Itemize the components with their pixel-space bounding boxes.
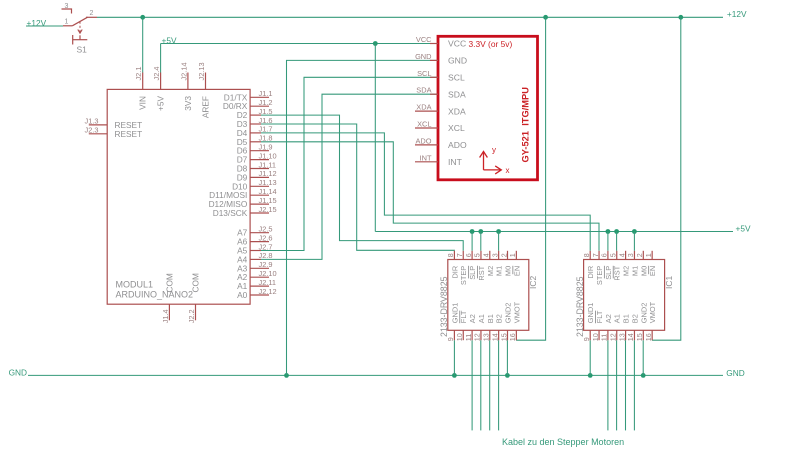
IC1 pin 10 (FLT) xyxy=(591,310,604,341)
IC2 pin 12 (A1) xyxy=(473,314,486,341)
IC1 pin 3 (M1) xyxy=(626,251,639,276)
svg-text:M1: M1 xyxy=(495,266,504,276)
MODUL1 reference label xyxy=(116,280,154,290)
wire D2 (MODUL1 D2 to IC2 STEP) xyxy=(261,115,463,251)
GY-521 axis icon xyxy=(480,146,510,175)
MODUL1 pin J1.12 (D9) xyxy=(237,169,277,182)
svg-text:J1.13: J1.13 xyxy=(259,178,277,187)
node GND (right rail label) xyxy=(726,368,744,378)
svg-text:RST: RST xyxy=(477,265,486,280)
GY-521 pin INT xyxy=(415,153,463,167)
svg-text:2: 2 xyxy=(90,10,94,17)
GY-521 name label xyxy=(521,87,531,163)
MODUL1 pin J2.2 (COM) xyxy=(187,273,201,323)
svg-text:4: 4 xyxy=(617,253,626,257)
svg-text:14: 14 xyxy=(490,333,499,341)
junction +5V tap at x=472.1 xyxy=(470,229,475,234)
svg-text:GND: GND xyxy=(9,367,27,377)
junction +12V / VIN drop xyxy=(140,15,145,20)
IC1 pin 6 (SLP) xyxy=(600,251,613,280)
IC2 pin 5 (RST) xyxy=(473,251,486,281)
wire D3 (MODUL1 D3 to IC2 DIR) xyxy=(261,124,454,251)
wire +5V tap to driver pin at x=607.9 xyxy=(607,232,609,251)
svg-text:16: 16 xyxy=(644,333,653,341)
svg-text:STEP: STEP xyxy=(459,266,468,285)
MODUL1 pin J2.4 (+5V) xyxy=(152,67,166,111)
svg-text:SCL: SCL xyxy=(417,69,431,78)
S1 reference label xyxy=(77,45,88,55)
svg-text:IC2: IC2 xyxy=(528,276,538,290)
svg-text:J1.2: J1.2 xyxy=(259,98,273,107)
junction GND / IC1 GND1 xyxy=(588,373,593,378)
GY-521 value label 3.3V (or 5v) xyxy=(469,39,513,49)
wire stepper motor lead at x=634.4 xyxy=(633,340,635,430)
wire +5V tap to driver pin at x=472.1 xyxy=(471,232,473,251)
svg-text:XDA: XDA xyxy=(448,106,466,116)
svg-text:SLP: SLP xyxy=(468,266,477,280)
IC2 pin 6 (SLP) xyxy=(464,251,477,280)
IC2 pin 8 (DIR) xyxy=(446,251,459,279)
svg-text:M2: M2 xyxy=(486,266,495,276)
IC1 reference label xyxy=(664,276,674,290)
wire SDA (MODUL1 A4 to GY-521 SDA) xyxy=(261,94,437,259)
svg-text:x: x xyxy=(506,166,510,175)
IC2 pin 3 (M1) xyxy=(490,251,503,276)
wire GY-521 GND to GND rail xyxy=(287,60,438,375)
svg-text:2: 2 xyxy=(499,253,508,257)
svg-text:SLP: SLP xyxy=(604,266,613,280)
svg-text:3: 3 xyxy=(626,253,635,257)
svg-text:3.3V (or 5v): 3.3V (or 5v) xyxy=(469,39,513,49)
svg-text:J1.1: J1.1 xyxy=(259,89,273,98)
MODUL1 pin J2.7 (A5) xyxy=(237,242,272,255)
IC2 pin 14 (B2) xyxy=(490,314,503,341)
svg-text:VCC: VCC xyxy=(448,39,466,49)
MODUL1 pin J2.5 (A7) xyxy=(237,225,272,238)
svg-text:M2: M2 xyxy=(622,266,631,276)
IC1 pin 4 (M2) xyxy=(617,251,630,276)
svg-text:DIR: DIR xyxy=(586,266,595,279)
junction +12V / IC2 VMOT drop xyxy=(543,15,548,20)
svg-text:A1: A1 xyxy=(477,314,486,323)
wire stepper motor lead at x=489.7 xyxy=(489,340,491,430)
module MODUL1 ARDUINO_NANO2 box xyxy=(107,89,250,304)
wire +12V feed to switch pin 1 xyxy=(26,25,63,27)
svg-text:GND2: GND2 xyxy=(639,303,648,324)
svg-text:GND: GND xyxy=(726,368,744,378)
GY-521 pin GND xyxy=(415,52,467,66)
svg-text:INT: INT xyxy=(448,157,463,167)
junction +5V tap at x=498.6 xyxy=(496,229,501,234)
svg-text:J1.8: J1.8 xyxy=(259,134,273,143)
IC1 pin 15 (GND2) xyxy=(635,303,648,342)
junction GND / IC1 GND2 xyxy=(641,373,646,378)
junction GND / IC2 GND2 xyxy=(505,373,510,378)
MODUL1 pin J1.13 (D10) xyxy=(232,178,277,191)
svg-text:5: 5 xyxy=(609,253,618,257)
svg-text:J1.5: J1.5 xyxy=(259,107,273,116)
junction +5V drop xyxy=(373,41,378,46)
node +12V (left supply label) xyxy=(27,18,47,28)
MODUL1 pin J2.3 (RESET) xyxy=(85,126,143,139)
svg-text:GND1: GND1 xyxy=(586,303,595,324)
wire +12V to MODUL1 VIN xyxy=(142,17,144,72)
svg-text:COM: COM xyxy=(191,273,201,292)
wire +12V to IC1 VMOT xyxy=(652,17,681,340)
IC2 pin 1 (EN) xyxy=(508,251,521,276)
svg-text:J1.11: J1.11 xyxy=(259,160,277,169)
svg-text:1: 1 xyxy=(644,253,653,257)
svg-text:B1: B1 xyxy=(486,314,495,323)
wire D4 (MODUL1 D4 to IC1 DIR) xyxy=(261,133,590,251)
MODUL1 value label xyxy=(116,290,194,300)
svg-text:VCC: VCC xyxy=(416,35,432,44)
svg-text:J2.2: J2.2 xyxy=(187,309,196,323)
svg-text:2: 2 xyxy=(635,253,644,257)
svg-text:12: 12 xyxy=(609,333,618,341)
MODUL1 pin J2.11 (A1) xyxy=(237,278,276,291)
svg-text:1: 1 xyxy=(508,253,517,257)
node +12V (right rail label) xyxy=(727,9,747,19)
node +5V (right rail label) xyxy=(736,223,751,233)
svg-text:8: 8 xyxy=(446,253,455,257)
svg-text:4: 4 xyxy=(482,253,491,257)
svg-text:ADO: ADO xyxy=(448,140,467,150)
svg-text:J2.9: J2.9 xyxy=(259,260,273,269)
MODUL1 pin J2.10 (A2) xyxy=(237,269,276,282)
IC2 pin 10 (FLT) xyxy=(455,310,468,341)
svg-text:J2.6: J2.6 xyxy=(259,233,273,242)
S1 pin number 3 xyxy=(65,3,69,10)
node GND (left rail label) xyxy=(9,367,27,377)
IC1 pin 11 (A2) xyxy=(600,314,613,341)
junction +5V tap at x=616.6 xyxy=(614,229,619,234)
svg-text:SCL: SCL xyxy=(448,73,465,83)
svg-text:13: 13 xyxy=(482,333,491,341)
IC1 pin 8 (DIR) xyxy=(582,251,595,279)
IC1 pin 13 (B1) xyxy=(617,314,630,341)
svg-text:7: 7 xyxy=(591,253,600,257)
MODUL1 pin J1.15 (D12/MISO) xyxy=(209,196,277,209)
wire +5V tap to driver pin at x=498.6 xyxy=(498,232,500,251)
svg-text:3V3: 3V3 xyxy=(183,96,193,111)
svg-text:J2.3: J2.3 xyxy=(85,126,99,135)
svg-text:8: 8 xyxy=(582,253,591,257)
svg-text:16: 16 xyxy=(508,333,517,341)
svg-text:2133-DRV8825: 2133-DRV8825 xyxy=(439,276,449,337)
svg-text:J2.15: J2.15 xyxy=(259,205,277,214)
svg-text:+5V: +5V xyxy=(156,96,166,111)
svg-text:XCL: XCL xyxy=(448,123,465,133)
MODUL1 pin J1.4 (COM) xyxy=(161,273,175,323)
svg-text:3: 3 xyxy=(65,3,69,10)
svg-text:J1.14: J1.14 xyxy=(259,187,277,196)
IC1 device label 2133-DRV8825 xyxy=(575,276,585,337)
MODUL1 pin J1.2 (D0/RX) xyxy=(223,98,273,111)
svg-text:J1.3: J1.3 xyxy=(85,117,99,126)
svg-text:J2.14: J2.14 xyxy=(179,62,188,80)
svg-text:VMOT: VMOT xyxy=(512,301,521,323)
junction +5V tap at x=480.8 xyxy=(478,229,483,234)
wire stepper motor lead at x=472.1 xyxy=(471,340,473,430)
node +5V (label near MODUL1) xyxy=(162,35,177,45)
svg-text:VIN: VIN xyxy=(138,96,148,110)
IC2 pin 4 (M2) xyxy=(482,251,495,276)
svg-text:MODUL1: MODUL1 xyxy=(116,280,154,290)
svg-text:1: 1 xyxy=(65,18,69,25)
svg-text:Kabel zu den Stepper Motoren: Kabel zu den Stepper Motoren xyxy=(502,437,624,447)
svg-text:J2.11: J2.11 xyxy=(259,278,277,287)
svg-text:2133-DRV8825: 2133-DRV8825 xyxy=(575,276,585,337)
svg-text:9: 9 xyxy=(446,337,455,341)
svg-text:ARDUINO_NANO2: ARDUINO_NANO2 xyxy=(116,290,194,300)
wire stepper motor lead at x=607.9 xyxy=(607,340,609,430)
IC2 pin 7 (STEP) xyxy=(455,251,468,285)
svg-text:A0: A0 xyxy=(237,290,248,300)
MODUL1 pin J1.6 (D3) xyxy=(237,116,273,129)
switch S1 xyxy=(62,9,98,45)
svg-text:6: 6 xyxy=(464,253,473,257)
GY-521 pin VCC xyxy=(416,35,466,49)
svg-text:SDA: SDA xyxy=(416,86,431,95)
wire stepper motor lead at x=625.5 xyxy=(625,340,627,430)
svg-text:RST: RST xyxy=(613,265,622,280)
IC2 pin 13 (B1) xyxy=(482,314,495,341)
svg-text:5: 5 xyxy=(473,253,482,257)
MODUL1 pin J1.10 (D7) xyxy=(237,151,277,164)
svg-text:GND: GND xyxy=(448,56,467,66)
IC1 pin 7 (STEP) xyxy=(591,251,604,285)
MODUL1 pin J1.1 (D1/TX) xyxy=(224,89,273,102)
wire SCL (MODUL1 A5 to GY-521 SCL) xyxy=(261,77,437,250)
MODUL1 pin J2.6 (A6) xyxy=(237,233,272,246)
wire +5V rail (middle) xyxy=(375,231,733,233)
svg-text:XCL: XCL xyxy=(417,120,431,129)
IC1 pin 16 (VMOT) xyxy=(644,301,657,341)
wire +5V tap to driver pin at x=634.4 xyxy=(633,232,635,251)
svg-text:A2: A2 xyxy=(604,314,613,323)
svg-text:EN: EN xyxy=(648,266,657,276)
svg-text:J1.10: J1.10 xyxy=(259,151,277,160)
MODUL1 pin J2.9 (A3) xyxy=(237,260,272,273)
svg-text:M1: M1 xyxy=(630,266,639,276)
wire IC2 GND2 to GND rail xyxy=(506,340,508,375)
svg-text:J2.12: J2.12 xyxy=(259,287,277,296)
wire IC2 GND1 to GND rail xyxy=(453,340,455,375)
svg-text:FLT: FLT xyxy=(595,310,604,323)
junction +5V tap at x=634.4 xyxy=(632,229,637,234)
svg-text:B2: B2 xyxy=(630,314,639,323)
svg-text:SDA: SDA xyxy=(448,89,466,99)
svg-text:14: 14 xyxy=(626,333,635,341)
junction +5V tap at x=607.9 xyxy=(606,229,611,234)
svg-text:B2: B2 xyxy=(495,314,504,323)
svg-text:7: 7 xyxy=(455,253,464,257)
GY-521 pin ADO xyxy=(415,136,467,150)
svg-text:J2.1: J2.1 xyxy=(134,67,143,81)
svg-text:COM: COM xyxy=(164,273,174,292)
svg-text:B1: B1 xyxy=(622,314,631,323)
MODUL1 pin J1.5 (D2) xyxy=(237,107,273,120)
MODUL1 pin J2.14 (3V3) xyxy=(179,62,193,110)
junction +12V / IC1 VMOT drop xyxy=(678,15,683,20)
svg-text:J2.10: J2.10 xyxy=(259,269,277,278)
MODUL1 pin J2.15 (D13/SCK) xyxy=(213,205,277,218)
svg-text:M0: M0 xyxy=(639,266,648,276)
wire IC1 GND1 to GND rail xyxy=(589,340,591,375)
svg-text:J1.7: J1.7 xyxy=(259,125,273,134)
IC1 pin 12 (A1) xyxy=(609,314,622,341)
svg-text:J1.12: J1.12 xyxy=(259,169,277,178)
MODUL1 pin J1.9 (D6) xyxy=(237,143,273,156)
GY-521 pin XDA xyxy=(415,103,466,117)
IC1 pin 14 (B2) xyxy=(626,314,639,341)
IC2 reference label xyxy=(528,276,538,290)
svg-text:10: 10 xyxy=(591,333,600,341)
svg-text:y: y xyxy=(492,146,496,155)
svg-text:15: 15 xyxy=(499,333,508,341)
junction GND / GY-521 GND xyxy=(284,373,289,378)
wire +5V to GY-521 VCC xyxy=(161,43,437,45)
wire stepper motor lead at x=498.6 xyxy=(498,340,500,430)
MODUL1 pin J1.8 (D5) xyxy=(237,134,273,147)
GY-521 pin SDA xyxy=(416,86,466,100)
wire +5V tap to driver pin at x=616.6 xyxy=(616,232,618,251)
svg-text:GND: GND xyxy=(415,52,431,61)
IC2 pin 16 (VMOT) xyxy=(508,301,521,341)
svg-text:AREF: AREF xyxy=(201,96,211,118)
svg-text:VMOT: VMOT xyxy=(648,301,657,323)
junction GND / IC2 GND1 xyxy=(452,373,457,378)
GY-521 pin XCL xyxy=(415,120,465,134)
wire +12V to IC2 VMOT xyxy=(516,17,546,340)
svg-text:13: 13 xyxy=(617,333,626,341)
svg-text:J1.9: J1.9 xyxy=(259,143,273,152)
MODUL1 pin J2.1 (VIN) xyxy=(134,67,148,110)
IC1 pin 9 (GND1) xyxy=(582,303,595,342)
svg-text:ADO: ADO xyxy=(415,136,431,145)
svg-text:J2.5: J2.5 xyxy=(259,225,273,234)
wire GND rail (bottom) xyxy=(28,374,723,376)
svg-text:+5V: +5V xyxy=(736,223,751,233)
svg-text:A2: A2 xyxy=(468,314,477,323)
svg-text:GY-521 ITG/MPU: GY-521 ITG/MPU xyxy=(521,87,531,163)
svg-text:J1.15: J1.15 xyxy=(259,196,277,205)
svg-text:XDA: XDA xyxy=(416,103,431,112)
svg-text:EN: EN xyxy=(512,266,521,276)
svg-text:9: 9 xyxy=(582,337,591,341)
svg-text:GND2: GND2 xyxy=(504,303,513,324)
svg-text:10: 10 xyxy=(455,333,464,341)
wire +5V from MODUL1 +5V pin up xyxy=(160,44,162,73)
svg-text:J2.7: J2.7 xyxy=(259,242,273,251)
IC1 pin 1 (EN) xyxy=(644,251,657,276)
svg-text:J2.4: J2.4 xyxy=(152,67,161,81)
svg-text:15: 15 xyxy=(635,333,644,341)
wire stepper motor lead at x=480.8 xyxy=(480,340,482,430)
S1 pin number 1 xyxy=(65,18,69,25)
wire +5V tap to driver pin at x=480.8 xyxy=(480,232,482,251)
wire +12V rail (top) xyxy=(97,16,723,18)
IC2 pin 9 (GND1) xyxy=(446,303,459,342)
driver IC1 2133-DRV8825 box xyxy=(584,260,665,331)
svg-text:11: 11 xyxy=(600,334,609,341)
wire stepper motor lead at x=616.6 xyxy=(616,340,618,430)
svg-text:M0: M0 xyxy=(504,266,513,276)
svg-text:J2.13: J2.13 xyxy=(197,62,206,80)
svg-text:A1: A1 xyxy=(613,314,622,323)
MODUL1 pin J1.14 (D11/MOSI) xyxy=(209,187,276,200)
wire IC1 GND2 to GND rail xyxy=(642,340,644,375)
S1 pin number 2 xyxy=(90,10,94,17)
MODUL1 pin J2.8 (A4) xyxy=(237,251,272,264)
svg-text:D13/SCK: D13/SCK xyxy=(213,208,248,218)
svg-text:STEP: STEP xyxy=(595,266,604,285)
IC2 pin 2 (M0) xyxy=(499,251,512,276)
IC2 device label 2133-DRV8825 xyxy=(439,276,449,337)
MODUL1 pin J1.3 (RESET) xyxy=(85,117,143,130)
svg-text:GND1: GND1 xyxy=(450,303,459,324)
note: Kabel zu den Stepper Motoren xyxy=(502,437,624,447)
svg-text:J1.6: J1.6 xyxy=(259,116,273,125)
svg-text:INT: INT xyxy=(420,153,432,162)
MODUL1 pin J1.11 (D8) xyxy=(237,160,276,173)
MODUL1 pin J2.13 (AREF) xyxy=(197,62,211,118)
MODUL1 pin J2.12 (A0) xyxy=(237,287,276,300)
svg-text:12: 12 xyxy=(473,333,482,341)
svg-text:DIR: DIR xyxy=(450,266,459,279)
svg-text:S1: S1 xyxy=(77,45,88,55)
IC2 pin 11 (A2) xyxy=(464,314,477,341)
svg-text:3: 3 xyxy=(490,253,499,257)
wire D5 (MODUL1 D5 to IC1 STEP) xyxy=(261,142,599,251)
driver IC2 2133-DRV8825 box xyxy=(448,260,529,331)
svg-text:J1.4: J1.4 xyxy=(161,309,170,323)
IC2 pin 15 (GND2) xyxy=(499,303,512,342)
module GY-521 (ITG/MPU) box xyxy=(438,36,538,180)
GY-521 pin SCL xyxy=(417,69,465,83)
svg-text:+12V: +12V xyxy=(727,9,747,19)
svg-text:RESET: RESET xyxy=(115,129,143,139)
svg-text:J2.8: J2.8 xyxy=(259,251,273,260)
MODUL1 pin J1.7 (D4) xyxy=(237,125,273,138)
IC1 pin 5 (RST) xyxy=(609,251,622,281)
svg-text:6: 6 xyxy=(600,253,609,257)
wire +5V vertical drop xyxy=(374,44,376,232)
svg-text:IC1: IC1 xyxy=(664,276,674,290)
IC1 pin 2 (M0) xyxy=(635,251,648,276)
svg-text:11: 11 xyxy=(464,334,473,341)
svg-text:FLT: FLT xyxy=(459,310,468,323)
